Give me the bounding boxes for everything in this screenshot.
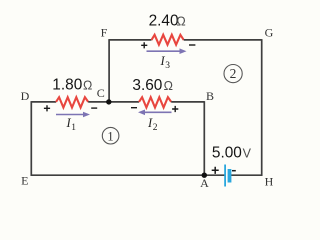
node A junction dot [202, 173, 207, 178]
wire F to R3 (top left segment) [109, 39, 151, 41]
svg-text:1: 1 [71, 123, 76, 133]
current label I3 [160, 54, 171, 71]
current arrow I3 [147, 48, 187, 54]
current label I2 [147, 116, 158, 133]
svg-text:Ω: Ω [83, 78, 92, 92]
wire R2 to B [171, 101, 204, 103]
svg-text:3.60: 3.60 [132, 77, 162, 94]
svg-text:3: 3 [165, 61, 170, 71]
resistor R2 3.60 ohm [139, 97, 171, 107]
value label 2.40 ohm [149, 12, 186, 29]
wire R3 to G (top right segment) [184, 39, 262, 41]
wire D to R1 [31, 101, 56, 103]
svg-text:2: 2 [230, 66, 237, 81]
svg-text:2.40: 2.40 [149, 12, 179, 29]
svg-text:D: D [21, 89, 30, 103]
svg-text:5.00: 5.00 [212, 145, 242, 162]
svg-text:B: B [206, 89, 214, 103]
value label 1.80 ohm [52, 76, 92, 93]
node label B [206, 89, 214, 103]
resistor R3 2.40 ohm [152, 35, 184, 45]
wire R1 to C to R2 [88, 101, 139, 103]
battery polarity - sign [232, 170, 236, 172]
loop marker 2 [224, 65, 242, 83]
wire D to E (left vertical) [30, 101, 32, 176]
wire B to A (vertical) [203, 101, 205, 175]
svg-text:F: F [101, 26, 108, 40]
loop marker 1 [102, 127, 119, 144]
node label F [101, 26, 108, 40]
node label E [21, 173, 28, 187]
svg-text:2: 2 [153, 123, 158, 133]
svg-text:1.80: 1.80 [52, 76, 82, 93]
value label 3.60 ohm [132, 77, 173, 94]
node label A [200, 176, 209, 190]
wire battery to H (bottom right segment) [231, 174, 263, 176]
polarity - sign R1 [91, 107, 97, 109]
value label 5.00 V [212, 145, 252, 162]
node label G [265, 26, 274, 40]
svg-text:Ω: Ω [164, 79, 173, 93]
current arrow I2 (points left) [138, 110, 172, 116]
svg-text:1: 1 [107, 129, 113, 143]
node label H [265, 175, 274, 189]
resistor R1 1.80 ohm [56, 97, 88, 107]
polarity + sign R3 [141, 42, 147, 48]
svg-text:G: G [265, 26, 274, 40]
current label I1 [66, 116, 77, 133]
svg-text:E: E [21, 173, 28, 187]
node label C [97, 86, 105, 100]
polarity - sign R2 [131, 107, 137, 109]
wire F to C (vertical) [108, 39, 110, 102]
wire E to battery (bottom left segment) [31, 174, 225, 176]
svg-text:H: H [265, 175, 274, 189]
polarity + sign R1 [44, 105, 50, 111]
svg-text:C: C [97, 86, 105, 100]
svg-text:A: A [200, 176, 209, 190]
svg-text:V: V [243, 146, 252, 160]
current arrow I1 [56, 112, 90, 118]
polarity - sign R3 [189, 44, 195, 46]
wire G to H (right vertical) [261, 39, 263, 176]
node C junction dot [106, 99, 111, 104]
battery V1 5.00V negative plate (short thick) [228, 169, 232, 183]
node label D [21, 89, 30, 103]
battery polarity + sign [212, 167, 219, 174]
battery V1 5.00V positive plate (long thin) [224, 165, 226, 187]
polarity + sign R2 [172, 106, 178, 112]
svg-text:Ω: Ω [176, 15, 185, 29]
